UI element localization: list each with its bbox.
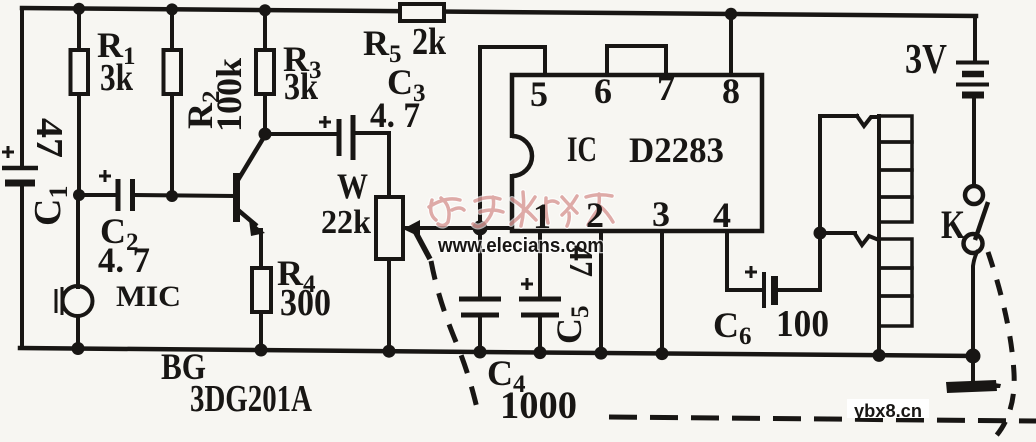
svg-text:100: 100 (776, 303, 829, 345)
wire C2 node to base (79, 195, 233, 196)
earphone 2 ladder (879, 239, 912, 326)
IC D2283 body (505, 75, 762, 231)
wire earphone ladder rail (877, 116, 881, 356)
wire pin5 bracket (480, 47, 545, 228)
svg-text:C1: C1 (27, 186, 73, 226)
svg-text:4. 7: 4. 7 (370, 95, 420, 135)
svg-text:100k: 100k (209, 58, 249, 132)
wire top rail (22, 8, 976, 16)
resistor R3 (256, 50, 274, 94)
wire pin4 to C6 (727, 231, 761, 290)
svg-text:2k: 2k (412, 21, 447, 63)
svg-text:C5: C5 (549, 306, 594, 345)
capacitor C3 (319, 115, 353, 160)
microphone MIC (56, 286, 93, 316)
capacitor C6 (745, 266, 775, 308)
svg-text:47: 47 (562, 245, 599, 277)
svg-text:D2283: D2283 (629, 130, 724, 170)
wire switch to bottom rail (973, 252, 977, 356)
wire R2 column (170, 9, 174, 196)
svg-text:6: 6 (594, 71, 612, 111)
switch K (964, 186, 989, 253)
svg-text:300: 300 (280, 282, 331, 324)
svg-text:MIC: MIC (116, 280, 181, 313)
svg-text:1000: 1000 (500, 384, 577, 427)
wire R3 column (263, 10, 267, 134)
potentiometer W (376, 197, 403, 259)
wire pin2 column (599, 231, 603, 354)
wire pin3 column (660, 231, 664, 355)
svg-text:8: 8 (722, 71, 740, 111)
wire C4 column (478, 228, 482, 353)
ground (946, 380, 1001, 393)
wire emitter to R4 (259, 230, 263, 351)
wire earphone top link (820, 116, 879, 126)
svg-text:1: 1 (533, 196, 551, 236)
wire MIC column (76, 195, 80, 350)
wire battery to switch (972, 99, 976, 186)
svg-text:3DG201A: 3DG201A (190, 378, 312, 420)
wire pin1 / C5 column (538, 231, 542, 354)
wire bottom rail (20, 348, 976, 356)
svg-text:3k: 3k (284, 66, 319, 108)
resistor R4 (252, 268, 271, 312)
svg-text:4: 4 (713, 195, 731, 235)
wire C6 to earphone rail (778, 288, 820, 292)
svg-text:C6: C6 (713, 305, 752, 350)
transistor BG 3DG201A (237, 137, 266, 236)
svg-text:IC: IC (567, 129, 597, 169)
svg-text:2: 2 (586, 195, 604, 235)
resistor R5 (400, 4, 444, 21)
svg-text:5: 5 (530, 74, 548, 114)
svg-text:22k: 22k (321, 204, 371, 241)
wire collector to C3 (265, 133, 389, 197)
wire wiper to node (406, 226, 512, 230)
mechanical link dashes W-K (431, 252, 1036, 436)
wire pin8 to rail (729, 14, 733, 75)
wire W bottom (387, 259, 391, 352)
svg-text:47: 47 (28, 118, 70, 158)
svg-text:ybx8.cn: ybx8.cn (854, 401, 922, 421)
wire battery drop (973, 16, 977, 59)
svg-text:3V: 3V (905, 37, 947, 83)
capacitor C4 (459, 299, 501, 315)
svg-text:3k: 3k (100, 57, 134, 99)
battery 3V (956, 63, 989, 96)
watermark red CJK (429, 192, 613, 227)
watermark ybx8.cn (847, 399, 929, 421)
earphone 1 ladder (879, 116, 912, 222)
svg-text:K: K (941, 202, 965, 247)
wire R1 column (77, 8, 81, 195)
wire left drop to C1 (20, 8, 24, 348)
capacitor C1 (2, 146, 38, 183)
svg-text:4. 7: 4. 7 (98, 240, 150, 280)
capacitor C2 (99, 170, 133, 211)
resistor R1 (71, 50, 89, 94)
wire to ground (971, 356, 975, 382)
wiper arrow of W (403, 220, 430, 259)
wire earphone left rail (818, 116, 822, 290)
svg-text:3: 3 (652, 194, 670, 234)
resistor R2 (164, 50, 182, 94)
svg-text:W: W (337, 166, 368, 206)
svg-text:7: 7 (657, 68, 675, 108)
capacitor C5 (519, 278, 561, 315)
wire earphone mid link (820, 233, 879, 245)
wire pin6-7 bracket (607, 46, 666, 75)
